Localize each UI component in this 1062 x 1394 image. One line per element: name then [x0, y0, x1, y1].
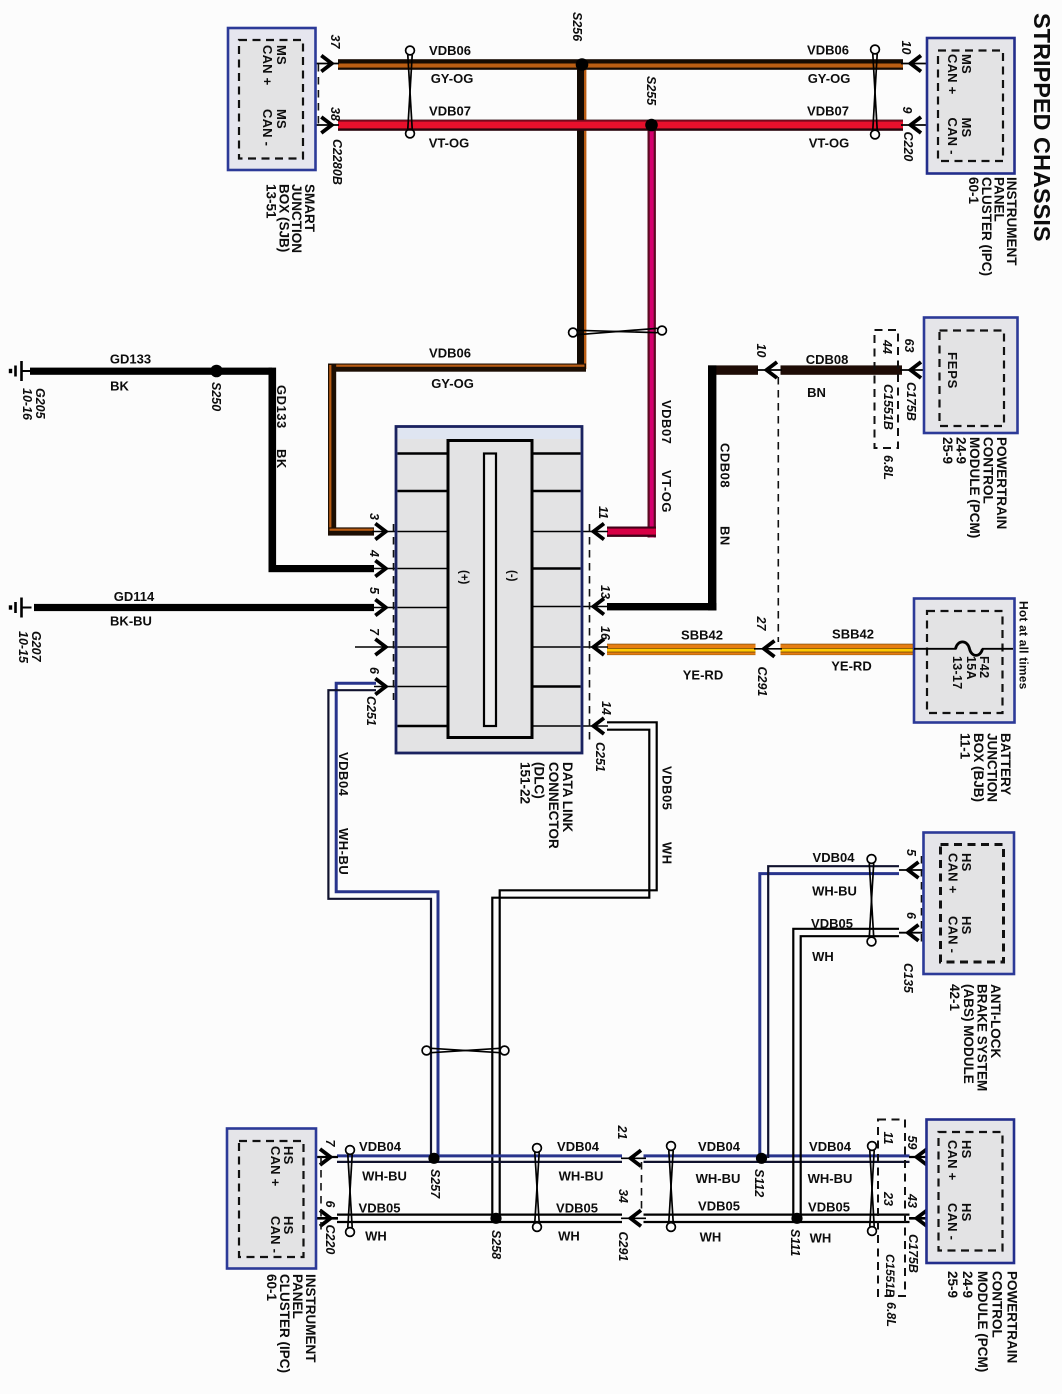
arrowhead DLC pin 13: [594, 599, 605, 615]
svg-text:STRIPPED CHASSIS: STRIPPED CHASSIS: [1029, 13, 1055, 242]
svg-text:C220: C220: [323, 1225, 337, 1255]
arrowhead DLC pin 14: [594, 718, 605, 734]
svg-text:44: 44: [880, 339, 894, 354]
connector C220 top: [901, 132, 915, 162]
label fuse F42 15A 13-17: [950, 656, 991, 689]
label Powertrain Control Module (PCM) bottom: [945, 1271, 1019, 1372]
pin 7 IPC bottom: [323, 1140, 337, 1148]
pin 59 PCM: [905, 1136, 919, 1150]
svg-text:14: 14: [599, 701, 613, 715]
svg-text:6: 6: [323, 1201, 337, 1209]
svg-text:GY-OG: GY-OG: [808, 71, 851, 86]
label MS CAN- IPC: [945, 118, 974, 155]
label Anti-lock Brake System (ABS) Module 42-1: [947, 984, 1003, 1091]
wire GD133 stub to DLC pin 4: [269, 565, 375, 572]
connector C2280B dashed line: [317, 64, 319, 128]
connector C291 dashed line (bottom): [641, 1162, 643, 1212]
svg-text:S257: S257: [428, 1169, 442, 1199]
wire GD133 vertical segment: [269, 368, 277, 569]
svg-text:BN: BN: [807, 385, 826, 400]
svg-text:CAN +: CAN +: [946, 853, 961, 894]
arrowhead PCM pin 43: [917, 1210, 928, 1226]
svg-text:C2280B: C2280B: [330, 139, 344, 185]
svg-text:VDB05: VDB05: [808, 1200, 850, 1215]
connector C291 bottom label: [616, 1232, 630, 1262]
arrowhead C291 pin 27: [764, 641, 775, 657]
twisted pair symbol VDB06/VDB07 left: [406, 46, 415, 138]
svg-text:WH: WH: [660, 842, 675, 865]
label Data Link Connector (DLC) 151-22: [517, 762, 575, 849]
arrowhead IPC pin 6: [320, 1210, 331, 1226]
label 6.8L bottom: [884, 1302, 898, 1327]
ground G207: [11, 598, 32, 618]
connector C1551B dashed rect top: [875, 330, 899, 448]
label BK vertical: [274, 449, 289, 469]
label MS CAN+ SJB: [260, 45, 289, 86]
pin 16 DLC: [598, 626, 612, 641]
wire VDB07 vertical segment from splice S255: [648, 120, 656, 538]
connector C175B top: [904, 382, 918, 421]
label Instrument Panel Cluster (IPC) 60-1 bottom: [264, 1274, 318, 1373]
label splice S257: [428, 1169, 442, 1199]
svg-text:C1551B: C1551B: [883, 1254, 897, 1298]
wire stub DLC pin6: [374, 686, 449, 688]
svg-text:7: 7: [367, 628, 381, 636]
svg-text:VDB04: VDB04: [813, 850, 856, 865]
label FEPS: [945, 352, 960, 389]
pin 63 C175B: [902, 339, 916, 353]
svg-text:F42: F42: [977, 656, 991, 678]
svg-text:27: 27: [754, 616, 768, 632]
label MS CAN- SJB: [260, 109, 289, 146]
svg-text:60-1: 60-1: [264, 1274, 279, 1302]
wire SBB42 segment C291 to BJB: [781, 644, 915, 655]
arrowhead DLC pin 4: [375, 561, 386, 577]
label HS CAN+ ABS: [946, 853, 975, 894]
connector C135 dashed line: [921, 856, 923, 943]
wire stub SJB pin38: [303, 124, 339, 126]
wire stub IPC pin9: [901, 124, 938, 126]
wire stub DLC pin5: [372, 607, 449, 609]
pin 34 C291: [616, 1189, 630, 1203]
arrowhead C291 pin 34: [631, 1210, 642, 1226]
label Smart Junction Box (SJB) 13-51: [264, 184, 317, 253]
wire VDB05 bottom horizontal IPC pin6 to PCM pin43: [337, 1213, 622, 1215]
label splice S258: [489, 1230, 503, 1259]
DLC (+) label: [458, 570, 470, 585]
svg-text:WH: WH: [812, 949, 834, 964]
ground ref G205 10-16: [20, 388, 47, 421]
svg-text:11-1: 11-1: [958, 733, 973, 760]
svg-text:S111: S111: [788, 1229, 802, 1256]
svg-text:WH: WH: [365, 1229, 387, 1244]
wire SBB42 segment DLC pin16 to C291: [607, 644, 756, 655]
wire VDB04 bottom horizontal IPC pin7 to PCM pin59: [337, 1154, 622, 1157]
connector C2280B: [330, 139, 344, 185]
DLC (-) label: [506, 570, 518, 582]
connector C251 dashed line left: [393, 524, 395, 700]
DLC pin ladder rungs right: [532, 452, 581, 455]
svg-text:4: 4: [367, 549, 381, 557]
label VDB07 vertical: [659, 400, 674, 444]
svg-text:GD133: GD133: [110, 352, 151, 367]
svg-text:CAN +: CAN +: [945, 54, 960, 95]
svg-text:VDB04: VDB04: [698, 1139, 741, 1154]
arrowhead DLC pin 6: [375, 679, 386, 695]
pin 3 DLC: [367, 513, 381, 520]
svg-text:SBB42: SBB42: [681, 628, 723, 643]
label WH-BU vertical: [336, 828, 351, 875]
component box Instrument Panel Cluster (IPC) top: [927, 38, 1015, 174]
svg-text:CAN +: CAN +: [268, 1146, 283, 1187]
svg-text:VDB06: VDB06: [429, 43, 471, 58]
svg-text:37: 37: [328, 35, 342, 50]
component box Anti-lock Brake System (ABS) Module: [924, 833, 1015, 975]
component box Smart Junction Box (SJB): [228, 28, 316, 170]
DLC center slot: [484, 454, 496, 727]
svg-text:25-9: 25-9: [945, 1271, 960, 1298]
pin 38 SJB: [328, 107, 342, 121]
connector C135: [901, 963, 915, 994]
arrowhead DLC pin 16: [594, 639, 605, 655]
connector C251 right: [593, 742, 607, 772]
label VDB05 vertical: [660, 766, 675, 810]
label HS CAN- IPC bottom: [268, 1216, 296, 1253]
label splice S256: [570, 12, 584, 42]
svg-text:11: 11: [881, 1132, 895, 1145]
wire GD114 from ground G207 to DLC pin 5: [34, 604, 374, 611]
pin 6 DLC: [367, 667, 381, 675]
wire stub DLC pin13: [531, 606, 608, 608]
pin 14 DLC: [599, 701, 613, 715]
twisted pair symbol VDB04/VDB05 mid verticals: [422, 1046, 509, 1055]
svg-text:C175B: C175B: [904, 382, 918, 421]
wire stub PCM pin59: [909, 1156, 939, 1158]
label Battery Junction Box (BJB) 11-1: [958, 733, 1014, 802]
wire stub DLC pin3: [372, 531, 449, 533]
wire VDB06 middle horizontal segment: [328, 364, 586, 372]
arrowhead C291 pin 21: [631, 1150, 642, 1166]
label WH vertical: [660, 842, 675, 865]
splice S258: [490, 1213, 501, 1224]
svg-text:C220: C220: [901, 132, 915, 162]
label MS CAN+ IPC: [945, 54, 974, 95]
twisted pair symbol VDB06/VDB07 right: [871, 45, 880, 139]
wire stub BJB fuse line left: [914, 648, 957, 650]
label splice S111: [788, 1229, 802, 1256]
wire continuation through C291 pin34 arrow: [621, 1217, 646, 1219]
svg-text:10-15: 10-15: [16, 631, 30, 664]
svg-text:C251: C251: [364, 696, 378, 726]
pin 44 C1551B: [880, 339, 894, 354]
svg-text:VDB07: VDB07: [807, 104, 849, 119]
pin 13 DLC: [598, 585, 612, 599]
svg-text:G205: G205: [33, 388, 47, 420]
connector C1551B dashed rect bottom: [878, 1120, 905, 1297]
svg-text:VDB07: VDB07: [429, 104, 471, 119]
arrowhead DLC pin 11: [594, 524, 605, 540]
wire stub DLC pin14: [531, 725, 608, 727]
svg-text:S256: S256: [570, 12, 584, 42]
pin 7 DLC: [367, 628, 381, 636]
wire VDB07 horizontal stub to DLC pin 11: [607, 527, 656, 537]
component box Data Link Connector (DLC): [396, 427, 582, 754]
label HS CAN+ PCM: [945, 1140, 974, 1181]
label Powertrain Control Module (PCM) top: [940, 437, 1009, 538]
svg-text:WH: WH: [700, 1230, 722, 1245]
svg-text:HS: HS: [959, 1203, 974, 1222]
wire VDB07 top horizontal SJB pin38 to IPC pin9: [338, 120, 903, 131]
connector C251 left: [364, 696, 378, 726]
title STRIPPED CHASSIS: [1029, 13, 1055, 242]
splice S111: [791, 1213, 802, 1224]
component box Battery Junction Box (BJB): [914, 599, 1015, 723]
svg-text:C1551B: C1551B: [881, 384, 895, 430]
svg-text:43: 43: [905, 1193, 919, 1208]
svg-text:11: 11: [596, 506, 610, 519]
svg-text:13-51: 13-51: [264, 184, 279, 219]
wire stub DLC pin16: [531, 646, 608, 648]
svg-text:YE-RD: YE-RD: [683, 668, 723, 683]
svg-text:VDB04: VDB04: [359, 1139, 402, 1154]
svg-text:CDB08: CDB08: [718, 443, 733, 488]
pin 6 IPC bottom: [323, 1201, 337, 1209]
svg-text:(-): (-): [506, 570, 518, 582]
arrowhead IPC pin 7: [320, 1149, 331, 1165]
svg-text:VDB04: VDB04: [336, 752, 351, 797]
svg-text:CAN -: CAN -: [945, 118, 960, 155]
wire VDB05 segment splice S111 up to ABS pin6: [793, 929, 899, 1218]
svg-text:(DLC): (DLC): [532, 762, 547, 799]
arrowhead IPC pin 9: [911, 117, 922, 133]
svg-text:10: 10: [754, 344, 768, 358]
twisted pair symbol VDB04/VDB05 at IPC: [346, 1146, 355, 1237]
wire continuation through C291 pin27 arrow: [754, 648, 782, 650]
svg-text:CAN -: CAN -: [946, 916, 961, 953]
pin 23 C1551B: [881, 1191, 895, 1206]
svg-text:WH-BU: WH-BU: [362, 1169, 407, 1184]
svg-text:9: 9: [900, 107, 914, 114]
wire VDB05 segment DLC pin14 corner path to splice S258: [492, 722, 656, 1216]
wire CDB08 horizontal segment at pin 10 of C291: [708, 365, 758, 374]
svg-text:7: 7: [323, 1140, 337, 1148]
label CDB08 vertical: [718, 443, 733, 488]
label GD133 vertical: [274, 385, 289, 429]
DLC pin ladder rungs left: [398, 452, 449, 455]
svg-text:CAN +: CAN +: [945, 1140, 960, 1181]
svg-text:25-9: 25-9: [940, 437, 955, 464]
svg-text:MODULE (PCM): MODULE (PCM): [975, 1271, 990, 1372]
svg-text:16: 16: [598, 626, 612, 641]
label Hot at all times: [1016, 601, 1030, 690]
svg-text:13-17: 13-17: [950, 656, 964, 689]
svg-text:151-22: 151-22: [517, 762, 532, 804]
twisted pair symbol VDB04/VDB05 left of C291: [533, 1144, 542, 1232]
svg-text:BK: BK: [110, 379, 129, 394]
label HS CAN- ABS: [946, 916, 975, 953]
svg-text:WH-BU: WH-BU: [336, 828, 351, 875]
svg-text:VDB06: VDB06: [429, 346, 471, 361]
svg-text:C291: C291: [616, 1232, 630, 1262]
svg-text:59: 59: [905, 1136, 919, 1150]
wire continuation through C291 pin21 arrow: [621, 1157, 646, 1159]
pin 37 SJB: [328, 35, 342, 50]
connector C291 dashed line (top): [777, 377, 779, 642]
component box Powertrain Control Module (PCM) top: [924, 318, 1018, 434]
svg-text:15A: 15A: [964, 656, 978, 680]
wire line through BJB fuse redrawn over box: [914, 648, 957, 650]
svg-text:C291: C291: [755, 667, 769, 697]
svg-text:CDB08: CDB08: [806, 352, 849, 367]
svg-text:S250: S250: [209, 382, 223, 411]
wire stub SJB pin37: [303, 63, 339, 65]
splice S250: [210, 365, 223, 378]
svg-text:CAN -: CAN -: [260, 109, 275, 146]
label Instrument Panel Cluster (IPC) 60-1 top: [966, 177, 1019, 276]
twisted pair symbol VDB04/VDB05 right of C291: [667, 1142, 676, 1232]
svg-text:VDB06: VDB06: [807, 43, 849, 58]
pin 5 DLC: [367, 587, 381, 595]
wire CDB08 stub to DLC pin 13: [607, 603, 716, 610]
wire stub IPC bottom pin7: [304, 1156, 338, 1158]
svg-text:3: 3: [367, 513, 381, 520]
twisted pair symbol VDB04/VDB05 at PCM: [868, 1142, 877, 1236]
svg-text:VDB05: VDB05: [698, 1199, 740, 1214]
svg-text:S112: S112: [752, 1169, 766, 1197]
connector C220 dashed line (IPC bottom): [320, 1157, 322, 1231]
wire stub PCM pin43: [909, 1217, 939, 1220]
svg-text:C135: C135: [901, 963, 915, 994]
svg-text:VT-OG: VT-OG: [809, 136, 849, 151]
arrowhead DLC pin 7: [375, 639, 386, 655]
arrowhead FEPS pin: [911, 362, 922, 378]
connector C220 bottom: [323, 1225, 337, 1255]
svg-text:VT-OG: VT-OG: [659, 470, 674, 513]
connector C291 top label: [755, 667, 769, 697]
pin 43 PCM: [905, 1193, 919, 1208]
splice S256: [576, 58, 589, 71]
wire continuation through C291 pin10 arrow: [757, 369, 782, 371]
svg-text:6: 6: [904, 912, 918, 920]
svg-text:S258: S258: [489, 1230, 503, 1259]
svg-text:MS: MS: [959, 118, 974, 138]
twisted pair symbol VDB06/VDB07 middle: [569, 326, 667, 337]
wire CDB08 vertical segment: [708, 365, 716, 610]
label splice S250: [209, 382, 223, 411]
connector C251 dashed line right: [589, 524, 591, 740]
twisted pair symbol VDB04/VDB05 at ABS: [867, 855, 876, 946]
svg-text:21: 21: [615, 1125, 629, 1140]
label VT-OG vertical: [659, 470, 674, 513]
svg-text:VDB05: VDB05: [660, 766, 675, 810]
svg-text:23: 23: [881, 1191, 895, 1206]
svg-text:13: 13: [598, 585, 612, 599]
fuse F42 symbol: [956, 642, 983, 656]
svg-text:BK: BK: [274, 449, 289, 469]
svg-text:VDB05: VDB05: [359, 1201, 401, 1216]
pin 9 IPC: [900, 107, 914, 114]
label splice S112: [752, 1169, 766, 1197]
wire stub DLC pin11: [531, 531, 608, 533]
label 6.8L top: [881, 455, 895, 480]
svg-text:FEPS: FEPS: [945, 352, 960, 389]
DLC inner connector body: [448, 441, 532, 738]
pin 21 C291: [615, 1125, 629, 1140]
svg-text:DATA LINK: DATA LINK: [560, 762, 575, 832]
arrowhead C291 pin 10: [767, 362, 778, 378]
splice S257: [428, 1153, 439, 1164]
label BN vertical: [718, 526, 733, 546]
pin 5 ABS: [904, 849, 918, 857]
arrowhead DLC pin 5: [375, 600, 386, 616]
wire GD133 horizontal from ground G205 to splice S250 and corner: [30, 368, 272, 375]
pin 6 ABS: [904, 912, 918, 920]
svg-text:WH: WH: [810, 1231, 832, 1246]
svg-text:WH-BU: WH-BU: [696, 1171, 741, 1186]
svg-text:42-1: 42-1: [947, 984, 962, 1012]
connector C1551B bottom: [883, 1254, 897, 1298]
ground ref G207 10-15: [16, 631, 43, 664]
wire VDB06 top horizontal SJB pin37 to IPC pin10: [338, 59, 903, 70]
pin 27 C291: [754, 616, 768, 632]
svg-text:VDB04: VDB04: [809, 1139, 852, 1154]
svg-text:34: 34: [616, 1189, 630, 1203]
arrowhead IPC pin 10: [911, 56, 922, 72]
svg-text:GD133: GD133: [274, 385, 289, 429]
wire stub DLC pin7: [355, 646, 449, 648]
svg-text:6.8L: 6.8L: [881, 455, 895, 480]
svg-text:WH: WH: [558, 1229, 580, 1244]
svg-text:WH-BU: WH-BU: [559, 1169, 604, 1184]
wire stub IPC bottom pin6: [304, 1217, 338, 1220]
svg-text:5: 5: [904, 849, 918, 857]
wire VDB06 stub at DLC pin 3: [328, 527, 374, 535]
pin 10 IPC: [899, 41, 913, 55]
pin 10 C291: [754, 344, 768, 358]
wire stub IPC pin10: [901, 63, 938, 65]
svg-text:CAN -: CAN -: [945, 1203, 960, 1240]
wire stub ABS pin5: [899, 869, 941, 871]
svg-text:6.8L: 6.8L: [884, 1302, 898, 1327]
svg-text:MS: MS: [274, 109, 289, 129]
svg-text:BN: BN: [718, 526, 733, 546]
svg-text:60-1: 60-1: [966, 177, 981, 205]
pin 11 C1551B: [881, 1132, 895, 1145]
svg-text:S255: S255: [644, 76, 658, 106]
svg-text:WH-BU: WH-BU: [812, 884, 857, 899]
component box Powertrain Control Module (PCM) bottom: [927, 1120, 1015, 1264]
arrowhead SJB pin 38: [321, 117, 332, 133]
svg-text:GD114: GD114: [114, 589, 155, 604]
splice S255: [645, 119, 658, 132]
arrowhead SJB pin 37: [321, 56, 332, 72]
arrowhead ABS pin 5: [908, 862, 919, 878]
svg-text:38: 38: [328, 107, 342, 121]
arrowhead DLC pin 3: [375, 524, 386, 540]
svg-text:24-9: 24-9: [960, 1271, 975, 1298]
svg-text:CAN -: CAN -: [268, 1216, 283, 1253]
label HS CAN- PCM: [945, 1203, 974, 1240]
connector C175B bottom: [906, 1234, 920, 1273]
wire stub DLC pin4: [372, 568, 449, 570]
wire VDB06 vertical segment to DLC pin 3: [328, 364, 336, 536]
svg-text:10: 10: [899, 41, 913, 55]
label HS CAN+ IPC bottom: [268, 1146, 296, 1187]
component box Instrument Panel Cluster (IPC) bottom: [227, 1129, 316, 1269]
svg-text:C251: C251: [593, 742, 607, 772]
svg-text:CONTROL: CONTROL: [990, 1271, 1005, 1338]
svg-text:6: 6: [367, 667, 381, 675]
